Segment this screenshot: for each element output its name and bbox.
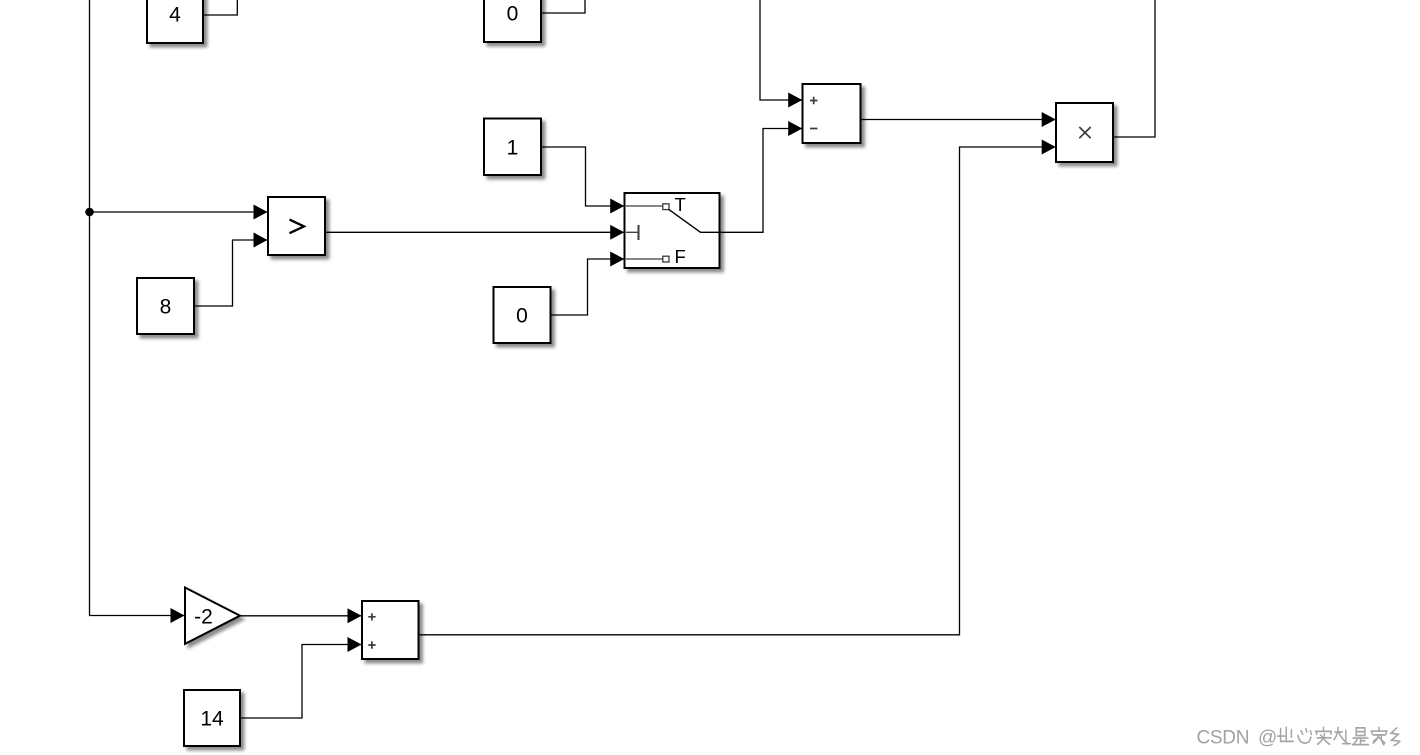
svg-text:8: 8 bbox=[160, 296, 172, 319]
svg-text:1: 1 bbox=[507, 137, 519, 160]
svg-text:4: 4 bbox=[169, 4, 181, 27]
svg-text:T: T bbox=[675, 194, 686, 215]
svg-text:-2: -2 bbox=[194, 606, 213, 629]
svg-text:CSDN: CSDN bbox=[1197, 728, 1250, 749]
svg-text:@: @ bbox=[1258, 728, 1277, 749]
svg-text:14: 14 bbox=[200, 708, 224, 731]
svg-text:0: 0 bbox=[516, 305, 528, 328]
svg-text:0: 0 bbox=[507, 3, 519, 26]
svg-text:F: F bbox=[675, 246, 686, 267]
